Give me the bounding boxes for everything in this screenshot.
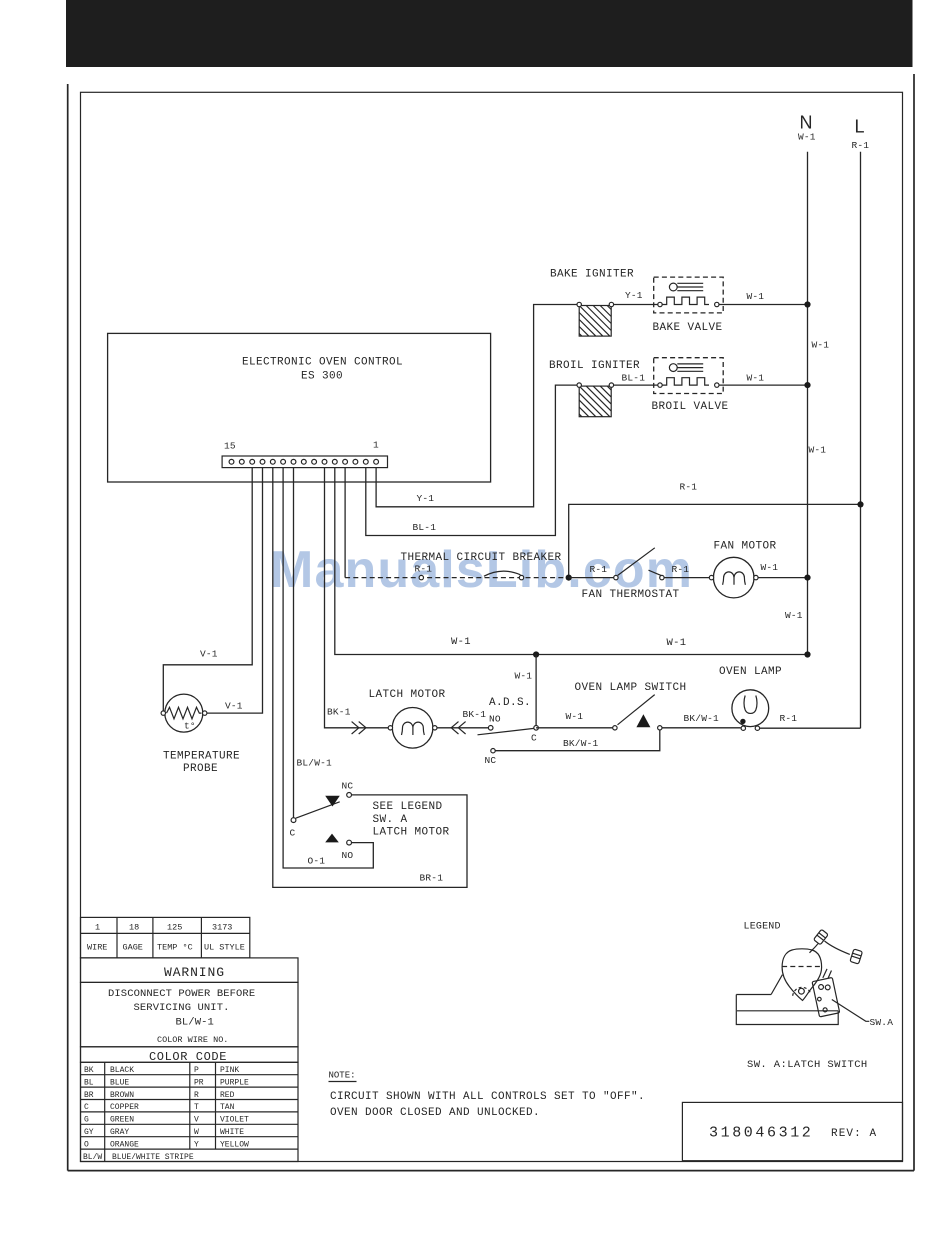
svg-text:BLUE/WHITE STRIPE: BLUE/WHITE STRIPE — [112, 1153, 194, 1162]
svg-text:SW.A: SW.A — [870, 1017, 894, 1028]
svg-text:WIRE: WIRE — [87, 943, 107, 953]
svg-text:BROWN: BROWN — [110, 1091, 134, 1100]
fan motor M1 — [709, 557, 758, 598]
ADS NC terminal — [491, 749, 495, 753]
wire BK-1 from pin 6 to latch motor — [325, 468, 389, 728]
svg-text:C: C — [84, 1103, 89, 1112]
svg-text:R-1: R-1 — [672, 564, 690, 575]
bake valve coil meander — [662, 297, 709, 304]
SW.A NO terminal — [347, 840, 352, 845]
svg-text:C: C — [290, 828, 296, 839]
svg-text:3173: 3173 — [212, 923, 232, 933]
svg-text:BROIL VALVE: BROIL VALVE — [652, 401, 729, 413]
svg-text:N: N — [800, 113, 813, 133]
svg-text:NC: NC — [485, 755, 497, 766]
svg-text:RED: RED — [220, 1091, 235, 1100]
svg-text:GY: GY — [84, 1128, 94, 1137]
ADS switch C terminal — [534, 726, 539, 731]
bake valve lines — [677, 283, 703, 290]
svg-text:SERVICING UNIT.: SERVICING UNIT. — [134, 1002, 230, 1014]
SW.A NC contact triangle — [325, 796, 340, 807]
svg-text:BAKE VALVE: BAKE VALVE — [653, 322, 723, 334]
broil valve pilot circle — [669, 364, 677, 372]
svg-text:W-1: W-1 — [761, 562, 779, 573]
svg-text:ELECTRONIC OVEN CONTROL: ELECTRONIC OVEN CONTROL — [242, 357, 403, 369]
latch motor M2 — [388, 708, 437, 749]
wire N rail — [807, 152, 809, 655]
legend leader line to SW.A — [832, 1000, 870, 1022]
svg-text:W-1: W-1 — [798, 132, 816, 143]
svg-text:NO: NO — [342, 850, 354, 861]
svg-text:BK-1: BK-1 — [463, 709, 487, 720]
svg-text:NO: NO — [489, 713, 501, 724]
svg-text:15: 15 — [224, 441, 236, 452]
svg-text:A.D.S.: A.D.S. — [489, 697, 531, 709]
page outer border left — [67, 84, 69, 1171]
legend spade lug 1 — [813, 929, 828, 945]
legend spade lug 2 — [850, 949, 863, 964]
svg-text:BR: BR — [84, 1091, 94, 1100]
svg-text:O: O — [84, 1140, 89, 1149]
thermal breaker right terminal — [519, 575, 523, 579]
svg-text:GAGE: GAGE — [123, 943, 143, 953]
svg-text:R-1: R-1 — [415, 564, 433, 575]
oven lamp DS1 — [732, 690, 769, 731]
svg-text:L: L — [855, 117, 865, 137]
bake igniter right terminal — [609, 302, 613, 306]
bake valve L1 dashed enclosure — [654, 277, 724, 313]
wire W-1 bus from pin 5 — [335, 468, 808, 655]
wire breaker node to fan thermostat — [569, 577, 614, 579]
thermal breaker left terminal — [419, 575, 423, 579]
svg-text:t°: t° — [184, 721, 196, 732]
wire spec table — [81, 917, 250, 958]
broil valve right terminal — [715, 383, 719, 387]
legend microswitch SW.A — [810, 968, 840, 1017]
svg-text:BL/W: BL/W — [83, 1153, 102, 1162]
wire from pin 4 to thermal breaker — [344, 468, 346, 578]
svg-text:R: R — [194, 1091, 199, 1100]
SW.A NO contact triangle — [325, 834, 339, 843]
oven lamp switch S3 — [613, 695, 662, 730]
svg-text:BK: BK — [84, 1066, 94, 1075]
svg-text:P: P — [194, 1066, 199, 1075]
page outer border bottom — [68, 1170, 914, 1172]
junction node broil/N — [804, 382, 810, 388]
svg-text:SW. A:LATCH SWITCH: SW. A:LATCH SWITCH — [747, 1059, 868, 1071]
electronic oven control U1 box — [108, 333, 491, 482]
svg-text:W-1: W-1 — [515, 671, 533, 682]
wire Y-1 from pin 1 — [376, 305, 577, 507]
broil igniter body (hatched) — [579, 386, 611, 417]
wire ADS branch down — [535, 655, 537, 728]
svg-text:TAN: TAN — [220, 1103, 235, 1112]
svg-text:R-1: R-1 — [780, 713, 798, 724]
svg-text:PINK: PINK — [220, 1066, 239, 1075]
bake igniter body (hatched) — [579, 306, 611, 337]
svg-text:GRAY: GRAY — [110, 1128, 129, 1137]
svg-text:BL: BL — [84, 1078, 94, 1087]
svg-text:W-1: W-1 — [747, 291, 765, 302]
broil valve L2 dashed enclosure — [654, 358, 724, 394]
svg-text:COPPER: COPPER — [110, 1103, 139, 1112]
color code table — [81, 1047, 299, 1162]
svg-text:Y-1: Y-1 — [625, 290, 643, 301]
temperature probe RT1 — [161, 694, 207, 732]
svg-text:R-1: R-1 — [590, 564, 608, 575]
svg-text:W-1: W-1 — [809, 445, 827, 456]
svg-text:TEMPERATURE: TEMPERATURE — [163, 751, 240, 763]
svg-text:NC: NC — [342, 780, 354, 791]
ADS switch S2 NO terminal — [488, 726, 493, 731]
svg-text:DISCONNECT POWER BEFORE: DISCONNECT POWER BEFORE — [108, 988, 255, 1000]
svg-text:OVEN LAMP: OVEN LAMP — [719, 666, 782, 678]
wire bake valve to N rail W-1 — [719, 304, 808, 306]
ADS switch blade — [478, 728, 534, 734]
svg-text:BLUE: BLUE — [110, 1078, 129, 1087]
wire igniter to broil valve — [614, 384, 658, 386]
svg-text:BK/W-1: BK/W-1 — [684, 713, 720, 724]
SW.A blade — [296, 802, 340, 818]
svg-text:TEMP °C: TEMP °C — [157, 943, 193, 953]
svg-text:SEE LEGEND: SEE LEGEND — [373, 801, 443, 813]
svg-text:BROIL IGNITER: BROIL IGNITER — [549, 360, 640, 372]
svg-text:CIRCUIT SHOWN WITH ALL CONTROL: CIRCUIT SHOWN WITH ALL CONTROLS SET TO "… — [330, 1091, 645, 1103]
svg-text:V: V — [194, 1116, 199, 1125]
SW.A NC terminal — [347, 793, 352, 798]
SW.A common terminal — [291, 818, 296, 823]
svg-text:W-1: W-1 — [812, 340, 830, 351]
svg-text:318046312: 318046312 — [709, 1125, 813, 1142]
wire R-1 from L rail to breaker — [569, 504, 861, 577]
svg-text:SW. A: SW. A — [373, 814, 408, 826]
svg-text:BK-1: BK-1 — [327, 706, 351, 717]
wire thermostat to fan motor — [664, 577, 709, 579]
wire V-1 from pin 12 to probe right — [207, 468, 263, 713]
broil valve coil meander — [662, 378, 709, 385]
svg-text:PURPLE: PURPLE — [220, 1078, 249, 1087]
svg-text:GREEN: GREEN — [110, 1116, 134, 1125]
svg-text:W-1: W-1 — [785, 610, 803, 621]
svg-text:YELLOW: YELLOW — [220, 1140, 249, 1149]
svg-text:V-1: V-1 — [200, 648, 218, 659]
svg-text:BL/W-1: BL/W-1 — [297, 757, 333, 768]
svg-text:FAN THERMOSTAT: FAN THERMOSTAT — [582, 589, 680, 601]
svg-text:BAKE IGNITER: BAKE IGNITER — [550, 269, 634, 281]
svg-text:VIOLET: VIOLET — [220, 1116, 249, 1125]
svg-text:125: 125 — [167, 923, 182, 933]
svg-text:LEGEND: LEGEND — [744, 922, 781, 933]
wire NC loop to pin 11 — [273, 468, 467, 888]
junction node R-1/L rail — [857, 501, 863, 507]
inner frame — [81, 92, 903, 1161]
svg-text:WHITE: WHITE — [220, 1128, 244, 1137]
wire oven lamp to L rail R-1 — [760, 727, 861, 729]
warning box — [81, 958, 299, 1047]
thermal breaker arc — [484, 571, 521, 576]
wire BL-1 from pin 2 — [366, 385, 577, 535]
junction node bake/N — [804, 301, 810, 307]
wire ADS C to oven lamp switch — [536, 727, 613, 729]
svg-text:1: 1 — [95, 923, 100, 933]
junction node W-1 bus / ADS branch — [533, 651, 539, 657]
connector chevrons right — [451, 722, 465, 734]
junction node W-1 bus / N rail — [804, 651, 810, 657]
svg-text:BLACK: BLACK — [110, 1066, 134, 1075]
svg-text:BL/W-1: BL/W-1 — [176, 1016, 214, 1028]
svg-text:G: G — [84, 1116, 89, 1125]
svg-text:1: 1 — [373, 440, 379, 451]
broil igniter left terminal — [577, 383, 581, 387]
svg-text:Y: Y — [194, 1140, 199, 1149]
svg-text:C: C — [531, 733, 537, 744]
svg-text:NOTE:: NOTE: — [329, 1071, 356, 1081]
svg-text:ES 300: ES 300 — [301, 370, 343, 382]
svg-text:W-1: W-1 — [667, 637, 687, 649]
legend harness wire 2 — [825, 941, 850, 954]
svg-text:R-1: R-1 — [852, 140, 870, 151]
page outer border right — [913, 74, 915, 1171]
bake valve right terminal — [715, 302, 719, 306]
part number box — [682, 1102, 902, 1160]
svg-text:R-1: R-1 — [680, 481, 698, 492]
thermal circuit breaker CB1 dashed element — [345, 577, 566, 579]
svg-text:W: W — [194, 1128, 199, 1137]
wire broil valve to N rail W-1 — [719, 384, 808, 386]
broil igniter right terminal — [609, 383, 613, 387]
connector J1 strip — [222, 456, 387, 468]
note text — [329, 1071, 646, 1120]
svg-text:OVEN LAMP SWITCH: OVEN LAMP SWITCH — [575, 682, 687, 694]
junction node fan/N — [804, 575, 810, 581]
svg-text:FAN MOTOR: FAN MOTOR — [714, 541, 777, 553]
wire latch motor to ADS — [437, 727, 489, 729]
wire lamp switch to oven lamp BK/W-1 — [662, 727, 741, 729]
svg-text:WARNING: WARNING — [164, 965, 225, 980]
wire L rail — [860, 152, 862, 729]
svg-text:Y-1: Y-1 — [417, 493, 435, 504]
svg-text:18: 18 — [129, 923, 139, 933]
broil valve lines — [677, 364, 703, 371]
svg-text:ORANGE: ORANGE — [110, 1140, 139, 1149]
svg-text:W-1: W-1 — [451, 636, 471, 648]
top black banner — [66, 0, 913, 67]
bake valve left terminal — [658, 302, 662, 306]
wire igniter to bake valve — [614, 304, 658, 306]
svg-text:T: T — [194, 1103, 199, 1112]
fan thermostat S1 — [614, 548, 664, 580]
svg-text:THERMAL CIRCUIT BREAKER: THERMAL CIRCUIT BREAKER — [401, 552, 562, 564]
connector chevrons left — [352, 722, 366, 734]
bake valve pilot circle — [669, 283, 677, 291]
svg-text:W-1: W-1 — [747, 373, 765, 384]
svg-text:BR-1: BR-1 — [420, 872, 444, 883]
svg-text:REV: A: REV: A — [831, 1128, 877, 1140]
wire ADS NC to lamp switch right terminal — [495, 730, 660, 751]
legend harness wire 1 — [810, 944, 818, 953]
bake igniter left terminal — [577, 302, 581, 306]
pin circles 1-15 — [229, 459, 378, 464]
wire NO loop to pin 10 — [283, 468, 373, 868]
svg-text:OVEN DOOR CLOSED AND UNLOCKED.: OVEN DOOR CLOSED AND UNLOCKED. — [330, 1107, 540, 1119]
svg-text:LATCH MOTOR: LATCH MOTOR — [369, 689, 446, 701]
wire fan motor to N rail — [758, 577, 807, 579]
svg-text:W-1: W-1 — [566, 711, 584, 722]
broil valve left terminal — [658, 383, 662, 387]
svg-text:UL STYLE: UL STYLE — [204, 943, 245, 953]
svg-text:BK/W-1: BK/W-1 — [563, 738, 599, 749]
svg-text:V-1: V-1 — [225, 701, 243, 712]
junction node breaker/R-1 — [566, 575, 572, 581]
svg-text:BL-1: BL-1 — [413, 522, 437, 533]
wire from pin 9 to SW.A common — [293, 468, 295, 818]
legend latch mechanism drawing — [736, 949, 838, 1025]
svg-text:PR: PR — [194, 1078, 204, 1087]
svg-text:BL-1: BL-1 — [622, 372, 646, 383]
svg-text:COLOR WIRE NO.: COLOR WIRE NO. — [157, 1035, 228, 1045]
svg-text:O-1: O-1 — [308, 855, 326, 866]
svg-text:LATCH MOTOR: LATCH MOTOR — [373, 827, 450, 839]
wire V-1 from pin 13 to probe left — [163, 468, 252, 711]
svg-text:PROBE: PROBE — [183, 763, 218, 775]
